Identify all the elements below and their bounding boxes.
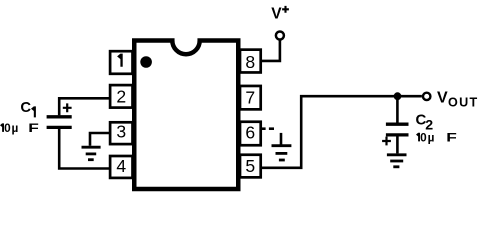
pin 1 marker dot — [140, 56, 152, 68]
label C1 — [20, 100, 36, 117]
ground (pin 3) — [82, 147, 101, 160]
svg-text:6: 6 — [245, 123, 255, 143]
label V+ — [271, 6, 289, 23]
svg-text:V: V — [271, 6, 282, 23]
pin 4 — [110, 156, 132, 178]
ground (C2) — [387, 155, 407, 167]
label 10uF (C1) — [0, 121, 39, 135]
svg-text:F: F — [28, 121, 39, 135]
wire pin3 to ground — [90, 133, 109, 146]
svg-text:3: 3 — [116, 121, 126, 141]
capacitor C1 — [47, 103, 72, 127]
V+ terminal circle — [276, 32, 284, 40]
svg-text:8: 8 — [245, 52, 255, 72]
pin 3 — [110, 121, 132, 144]
svg-text:F: F — [446, 131, 457, 145]
junction dot — [394, 92, 402, 100]
svg-text:0µ: 0µ — [420, 130, 435, 144]
VOUT terminal circle — [423, 93, 430, 100]
IC 8-pin DIP package body with notch — [134, 41, 238, 190]
pin 7 — [240, 86, 261, 109]
dashed wire pin6 to ground — [262, 129, 282, 145]
pin 2 — [110, 85, 132, 108]
pin 1 (box and number) — [110, 51, 132, 74]
ground (pin 6) — [272, 146, 292, 160]
wire pin2 to C1 — [59, 98, 109, 115]
label 10uF (C2) — [416, 130, 457, 144]
svg-text:C: C — [20, 100, 31, 116]
wire pin8 to V+ terminal — [261, 40, 280, 61]
svg-text:OUT: OUT — [448, 95, 478, 109]
wire node to C2 — [396, 99, 399, 123]
svg-text:V: V — [437, 90, 448, 107]
wire C2 to ground — [396, 137, 399, 154]
label C2 — [416, 111, 434, 133]
svg-text:0µ: 0µ — [4, 121, 19, 135]
svg-text:5: 5 — [245, 156, 255, 176]
svg-text:2: 2 — [116, 86, 126, 106]
svg-text:4: 4 — [116, 156, 126, 176]
pin 6 — [240, 122, 261, 146]
pin 8 — [240, 50, 261, 73]
wire C1 to pin 4 — [59, 129, 109, 169]
wire pin5 to VOUT node (segments right, up, right) — [261, 96, 422, 168]
svg-text:7: 7 — [245, 88, 255, 108]
pin 5 — [240, 155, 261, 178]
label VOUT — [437, 90, 478, 110]
capacitor C2 — [382, 124, 408, 145]
